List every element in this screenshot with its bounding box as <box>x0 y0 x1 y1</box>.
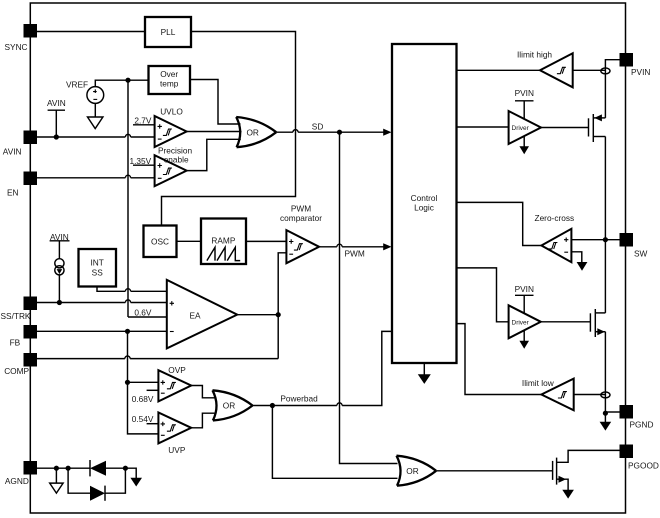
svg-text:Driver: Driver <box>512 319 530 326</box>
wire Powerbad with hop <box>253 331 393 405</box>
label 0.6V <box>128 307 167 317</box>
wire SS/TRK to EA with hop <box>37 300 167 303</box>
svg-text:OSC: OSC <box>151 237 169 247</box>
pin AGND <box>5 461 37 486</box>
ground (solid) at PGND node <box>600 413 612 430</box>
wire OR3 to PGOOD FET gate <box>436 470 552 472</box>
pin FB <box>10 325 37 347</box>
label 0.54V <box>132 414 159 424</box>
svg-text:SS/TRK: SS/TRK <box>1 311 31 321</box>
comparator OVP <box>158 365 191 402</box>
wire FB node to OVP plus <box>128 381 159 383</box>
svg-text:OR: OR <box>406 466 418 476</box>
comparator Ilimit high <box>517 50 573 88</box>
wire AGND bottom branch <box>68 468 90 493</box>
wire SD with hop over PLL line <box>276 130 384 133</box>
svg-text:PVIN: PVIN <box>631 67 650 77</box>
node VREF junction <box>125 78 130 83</box>
OSC block <box>144 226 177 258</box>
wire EA out up to PWM minus <box>278 253 286 315</box>
svg-text:INT: INT <box>91 258 104 268</box>
node SS/TRK junction <box>57 300 62 305</box>
wire PGND stub <box>605 411 619 413</box>
comparator Precision enable <box>155 146 193 187</box>
driver U-DRV1 (high side) <box>509 88 541 144</box>
RAMP block <box>201 219 246 265</box>
svg-text:PGOOD: PGOOD <box>628 461 659 471</box>
wire INT SS to EA with hop <box>97 287 167 292</box>
sense ellipse high <box>601 68 610 74</box>
node EA output junction <box>276 312 281 317</box>
svg-text:OVP: OVP <box>168 365 186 375</box>
wire VREF to node <box>95 80 148 87</box>
svg-text:PGND: PGND <box>630 420 654 430</box>
OR gate U-OR1 (enable/fault) <box>236 117 276 147</box>
svg-text:FB: FB <box>10 337 21 347</box>
node PGND junction <box>603 411 608 416</box>
svg-text:0.54V: 0.54V <box>132 414 154 424</box>
OR gate U-OR3 (pgood) <box>397 456 437 486</box>
node SD junction <box>337 130 342 135</box>
arrowhead SD into Control Logic <box>383 129 391 136</box>
svg-text:EA: EA <box>189 311 201 321</box>
ground (solid) below Control Logic <box>418 363 431 384</box>
node OVP plus junction <box>125 380 130 385</box>
transistor Q3 (PGOOD NMOS) <box>553 450 620 490</box>
node AGND junction 3 <box>123 466 128 471</box>
svg-text:SD: SD <box>312 121 324 131</box>
arrowhead PWM into Control Logic <box>383 243 391 250</box>
current source I1 <box>50 232 70 303</box>
label 1.35V <box>130 156 155 166</box>
wire FB rail down to OVP/UVP with hop <box>128 331 159 434</box>
node SW junction <box>603 237 608 242</box>
svg-text:Driver: Driver <box>512 125 530 132</box>
pin SS/TRK <box>1 297 38 321</box>
wire EN to Precision enable minus (hop over VREF rail) <box>37 175 155 178</box>
wire driver 1 to HS gate <box>541 127 589 129</box>
pin EN <box>7 172 37 198</box>
svg-text:VREF: VREF <box>66 80 88 90</box>
wire FB to EA minus <box>37 330 167 332</box>
pin PGND <box>620 405 654 430</box>
ground (solid) zero-cross <box>577 262 588 271</box>
wire UVLO out to OR <box>187 131 242 133</box>
svg-text:comparator: comparator <box>280 213 322 223</box>
svg-text:UVLO: UVLO <box>160 106 183 116</box>
op-amp EA <box>167 280 237 349</box>
svg-text:OR: OR <box>223 401 235 411</box>
comparator Zero-cross <box>535 213 575 262</box>
svg-text:0.6V: 0.6V <box>134 307 152 317</box>
svg-text:RAMP: RAMP <box>211 235 235 245</box>
svg-text:Control: Control <box>411 193 438 203</box>
wire AGND node3 to substrate ground <box>125 468 136 478</box>
svg-text:SW: SW <box>634 249 648 259</box>
svg-text:Over: Over <box>160 69 178 79</box>
wire zero-cross plus to SW <box>571 239 619 241</box>
ground (solid) substrate <box>130 478 142 487</box>
svg-text:AGND: AGND <box>5 476 29 486</box>
svg-text:AVIN: AVIN <box>3 147 22 157</box>
transistor Q1 (high side NMOS) <box>589 114 606 142</box>
svg-text:COMP: COMP <box>4 366 29 376</box>
wire RAMP to PWM comparator plus <box>246 240 286 242</box>
svg-text:2.7V: 2.7V <box>134 116 152 126</box>
wire OSC to RAMP <box>177 240 202 242</box>
ground (open) below VREF <box>88 104 103 129</box>
wire Ilimit low input to sense rail <box>574 394 606 396</box>
wire AVIN to UVLO minus (hop over VREF rail) <box>37 134 155 137</box>
Over temp block <box>149 66 191 94</box>
comparator PWM <box>280 204 322 264</box>
node AVIN junction <box>54 134 59 139</box>
label 2.7V <box>133 116 155 126</box>
pin SYNC <box>5 24 38 52</box>
VREF source V1 <box>66 80 104 104</box>
wire driver 2 to LS gate <box>541 321 591 323</box>
transistor Q2 (low side NMOS) <box>590 309 605 337</box>
svg-text:Logic: Logic <box>414 203 434 213</box>
comparator UVLO <box>155 106 187 147</box>
pin AVIN <box>3 131 37 157</box>
wire Ilimit high out to Control Logic <box>457 69 541 71</box>
node AGND junction 1 <box>54 466 59 471</box>
diode D2 (bottom, cathode right) <box>90 468 125 501</box>
wire PVIN pin stub and sense rail down to HS drain <box>605 60 619 118</box>
wire PLL to OSC (right, down, left, down) <box>162 32 296 226</box>
svg-text:temp: temp <box>160 78 179 88</box>
wire EA output <box>237 314 278 316</box>
wire HS source down to SW node <box>604 137 606 240</box>
svg-text:OR: OR <box>246 127 258 137</box>
comparator Ilimit low <box>522 378 574 410</box>
label 0.68V <box>132 390 159 404</box>
wire Ilimit low out to Control Logic <box>457 324 542 395</box>
ground (solid) below driver 1 <box>519 136 529 154</box>
pin SW <box>620 233 648 259</box>
svg-text:AVIN: AVIN <box>47 98 66 108</box>
pin PVIN <box>620 53 651 77</box>
PLL block <box>145 17 191 47</box>
svg-text:PVIN: PVIN <box>515 88 534 98</box>
ground (solid) below PGOOD FET <box>562 490 574 499</box>
wire Control Logic to driver 2 <box>457 268 509 322</box>
wire COMP to EA output with hop <box>37 315 278 359</box>
ground (solid) below driver 2 <box>519 331 529 349</box>
AVIN supply stub top <box>47 98 66 137</box>
wire Over temp to OR <box>190 80 241 125</box>
wire LS drain up to SW node <box>604 240 606 313</box>
pin COMP <box>4 353 37 376</box>
svg-text:PLL: PLL <box>161 27 176 37</box>
wire SD branch down to OR3 with hop over Powerbad <box>340 132 398 463</box>
wire SYNC to PLL <box>37 31 145 33</box>
wire OVP out to OR <box>191 386 215 398</box>
ground (open) AGND <box>50 468 63 493</box>
wire AGND circuit <box>37 467 90 469</box>
wire LS source down through sense to PGND <box>604 332 606 414</box>
wire PWM output with hop <box>319 244 384 247</box>
pin PGOOD <box>620 445 659 471</box>
node FB junction <box>125 329 130 334</box>
wire VREF vertical reference rail <box>127 80 129 317</box>
svg-text:Ilimit high: Ilimit high <box>517 50 552 60</box>
node Powerbad junction <box>270 403 275 408</box>
driver U-DRV2 (low side) <box>509 284 541 338</box>
svg-text:0.68V: 0.68V <box>132 394 154 404</box>
svg-text:PWM: PWM <box>291 204 311 214</box>
node AGND junction 2 <box>66 466 71 471</box>
wire Powerbad branch down to OR3 <box>272 406 397 479</box>
svg-text:EN: EN <box>7 188 19 198</box>
svg-text:Powerbad: Powerbad <box>280 393 318 403</box>
sense ellipse low <box>601 392 610 398</box>
wire Ilimit high input to sense rail <box>573 69 606 71</box>
svg-text:Ilimit low: Ilimit low <box>522 378 555 388</box>
comparator UVP <box>158 413 191 456</box>
OR gate U-OR2 (powerbad) <box>213 390 253 420</box>
wire Precision enable out to OR <box>187 139 241 170</box>
diode D1 (top, cathode left) <box>90 460 125 476</box>
wire UVP out to OR <box>191 413 215 428</box>
svg-text:PWM: PWM <box>345 248 365 258</box>
svg-text:SYNC: SYNC <box>5 42 28 52</box>
wire Control Logic to driver 1 <box>457 126 509 128</box>
svg-text:SS: SS <box>92 268 104 278</box>
svg-text:enable: enable <box>164 155 189 165</box>
svg-text:UVP: UVP <box>168 445 186 455</box>
svg-text:PVIN: PVIN <box>515 284 534 294</box>
svg-text:Zero-cross: Zero-cross <box>535 213 575 223</box>
Control Logic block <box>392 44 457 363</box>
wire zero-cross out to Control Logic <box>457 202 542 245</box>
INT SS block <box>79 249 117 287</box>
wire zero-cross minus to ground <box>571 252 581 263</box>
